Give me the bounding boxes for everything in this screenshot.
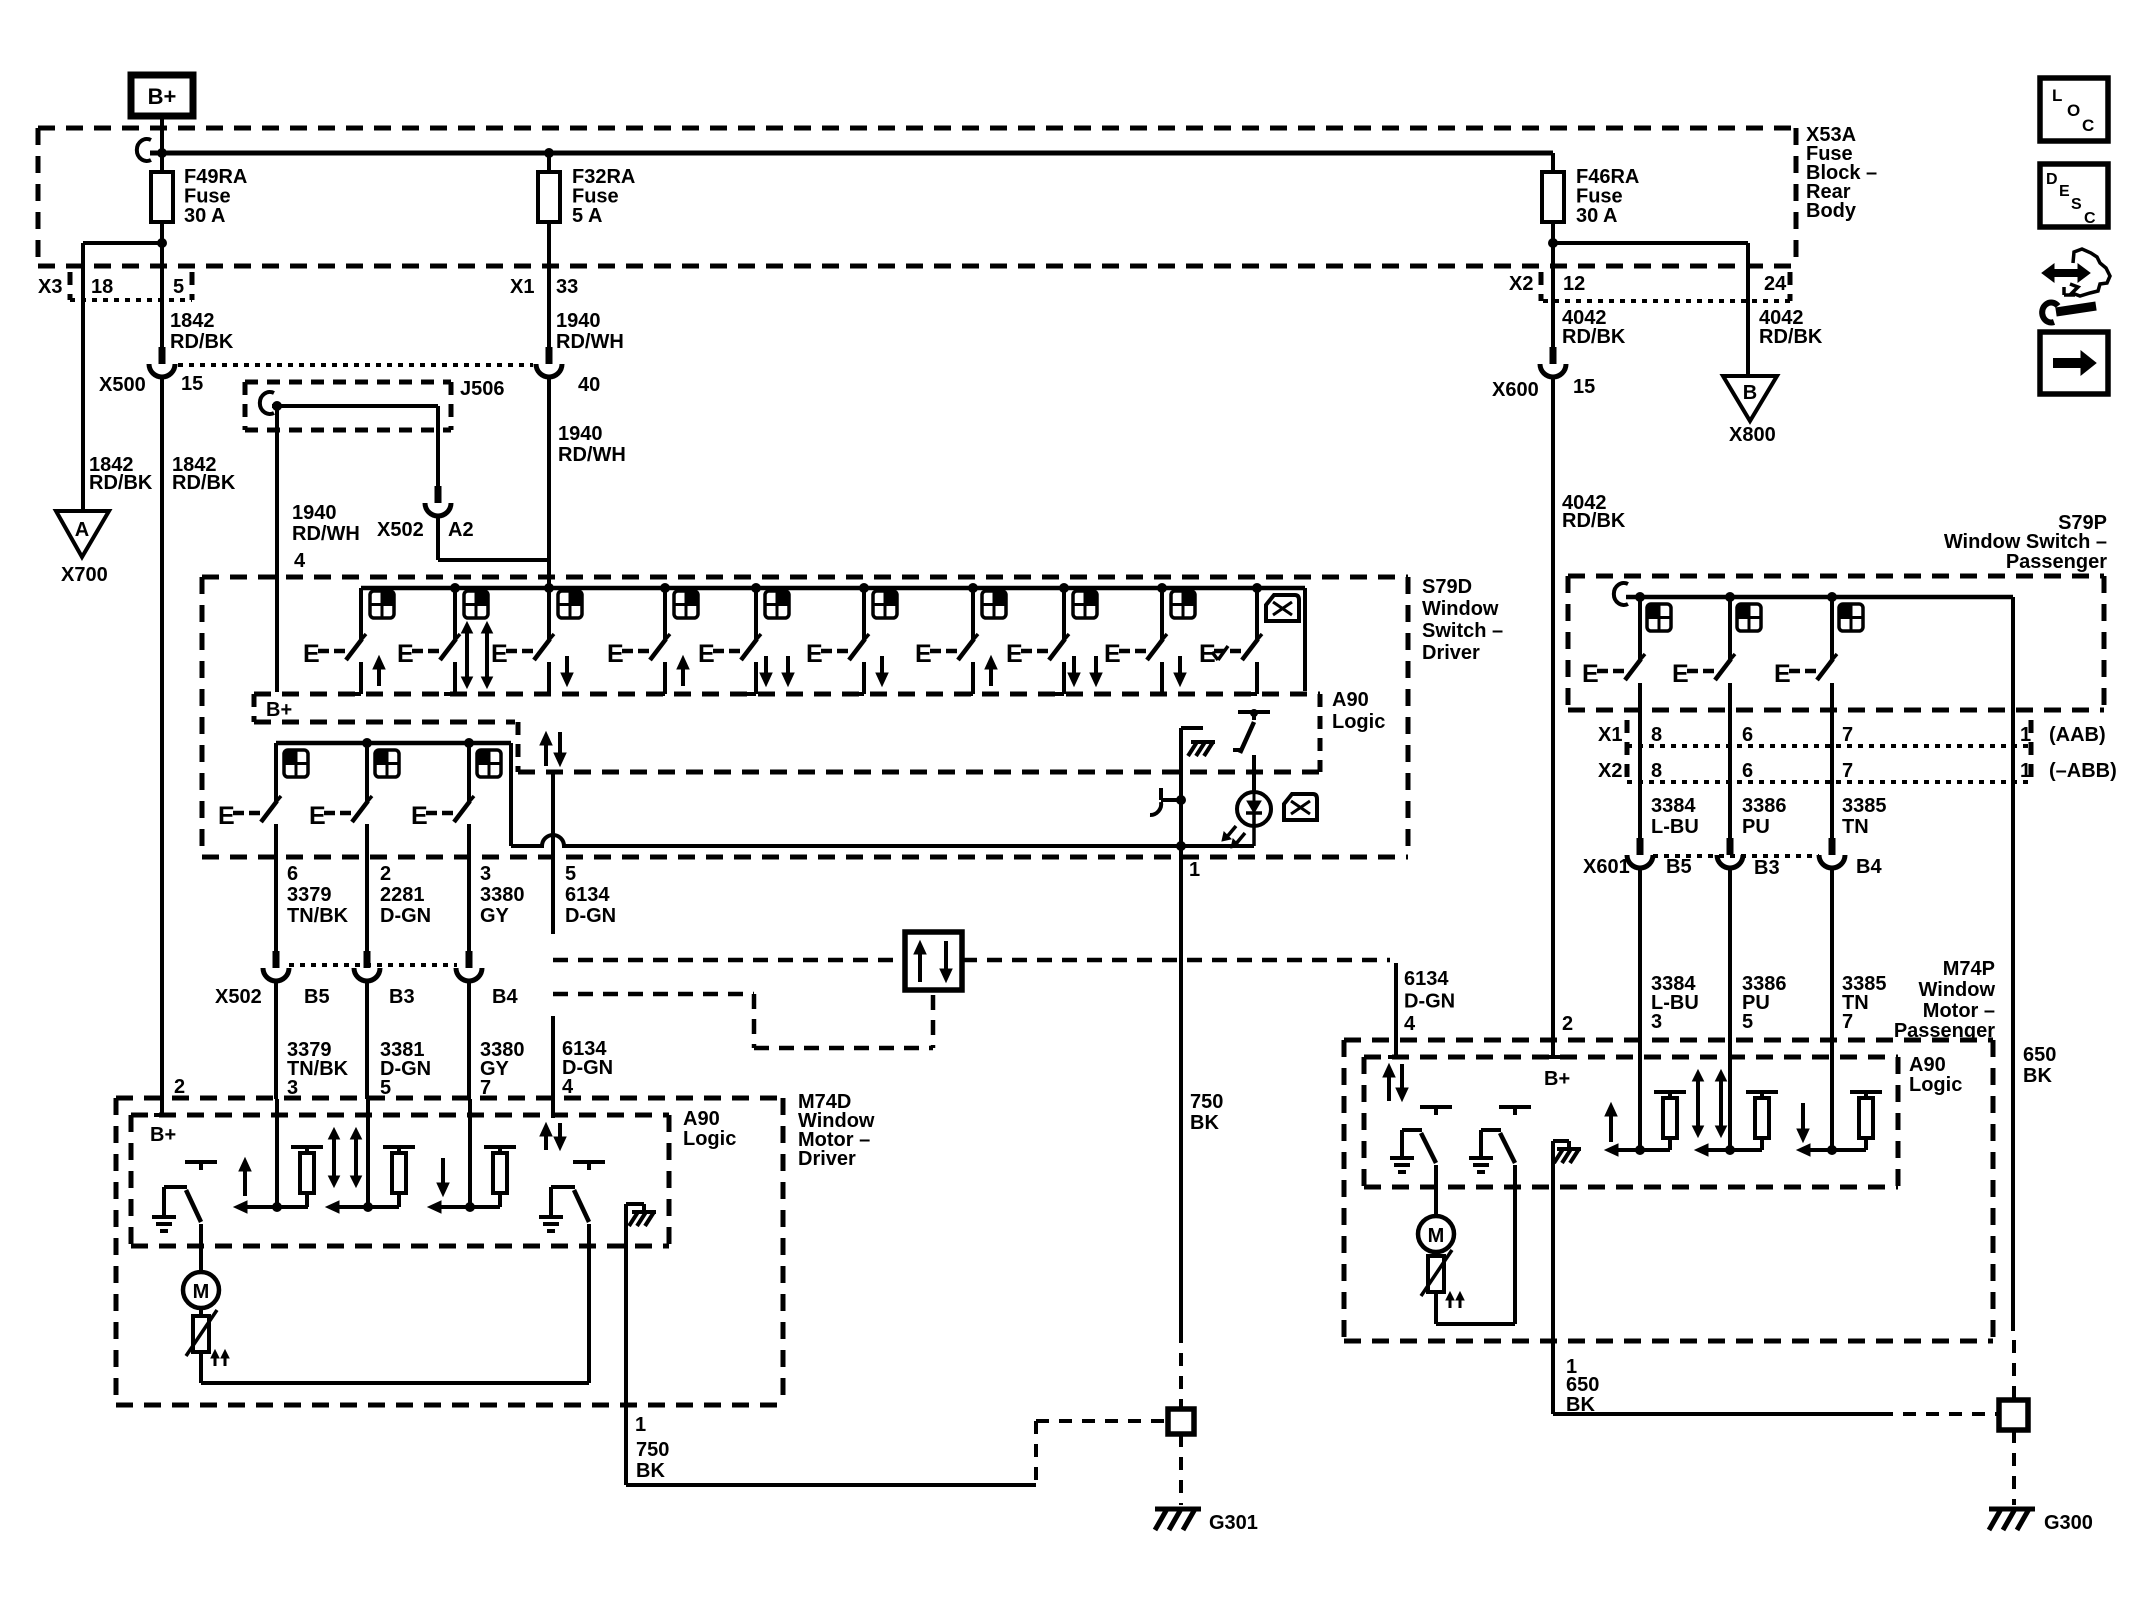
- svg-text:1: 1: [2020, 724, 2031, 746]
- svg-text:1: 1: [1189, 859, 1200, 881]
- svg-text:Switch –: Switch –: [1422, 620, 1503, 642]
- svg-text:24: 24: [1764, 273, 1787, 295]
- svg-text:E: E: [1104, 640, 1121, 668]
- svg-text:Logic: Logic: [683, 1128, 736, 1150]
- svg-text:X502: X502: [215, 986, 262, 1008]
- svg-text:M: M: [193, 1281, 210, 1303]
- svg-text:TN/BK: TN/BK: [287, 905, 349, 927]
- svg-text:Logic: Logic: [1909, 1074, 1962, 1096]
- svg-text:G300: G300: [2044, 1512, 2093, 1534]
- svg-text:X3: X3: [38, 276, 62, 298]
- svg-text:M74P: M74P: [1943, 958, 1995, 980]
- svg-text:650: 650: [1566, 1374, 1599, 1396]
- svg-text:X502: X502: [377, 519, 424, 541]
- svg-text:X500: X500: [99, 374, 146, 396]
- svg-text:7: 7: [1842, 724, 1853, 746]
- svg-text:E: E: [1006, 640, 1023, 668]
- svg-text:(–ABB): (–ABB): [2049, 760, 2117, 782]
- svg-text:E: E: [303, 640, 320, 668]
- svg-text:PU: PU: [1742, 816, 1770, 838]
- svg-text:(AAB): (AAB): [2049, 724, 2106, 746]
- svg-text:2281: 2281: [380, 884, 425, 906]
- svg-text:6: 6: [1742, 760, 1753, 782]
- svg-text:4: 4: [1404, 1013, 1416, 1035]
- svg-text:Body: Body: [1806, 200, 1857, 222]
- svg-text:6: 6: [287, 863, 298, 885]
- svg-text:650: 650: [2023, 1044, 2056, 1066]
- svg-text:3384: 3384: [1651, 795, 1696, 817]
- svg-text:5: 5: [565, 863, 576, 885]
- svg-text:E: E: [1582, 660, 1599, 688]
- svg-text:RD/BK: RD/BK: [170, 331, 234, 353]
- svg-text:1940: 1940: [558, 423, 603, 445]
- svg-text:D-GN: D-GN: [565, 905, 616, 927]
- svg-text:X600: X600: [1492, 379, 1539, 401]
- svg-text:Window: Window: [1919, 979, 1996, 1001]
- svg-text:Driver: Driver: [1422, 642, 1480, 664]
- svg-text:6134: 6134: [565, 884, 610, 906]
- svg-text:A90: A90: [1909, 1054, 1946, 1076]
- svg-text:B+: B+: [1544, 1068, 1570, 1090]
- svg-text:40: 40: [578, 374, 600, 396]
- svg-text:O: O: [2067, 101, 2080, 120]
- svg-text:GY: GY: [480, 905, 510, 927]
- svg-text:E: E: [411, 802, 428, 830]
- svg-text:RD/BK: RD/BK: [172, 472, 236, 494]
- svg-text:15: 15: [1573, 376, 1595, 398]
- svg-text:3386: 3386: [1742, 795, 1787, 817]
- svg-text:B+: B+: [148, 84, 177, 109]
- svg-text:30 A: 30 A: [1576, 205, 1618, 227]
- svg-text:3385: 3385: [1842, 795, 1887, 817]
- svg-text:6134: 6134: [1404, 968, 1449, 990]
- svg-text:RD/BK: RD/BK: [1759, 326, 1823, 348]
- svg-text:Window: Window: [1422, 598, 1499, 620]
- svg-text:X601: X601: [1583, 856, 1630, 878]
- svg-text:3379: 3379: [287, 884, 332, 906]
- svg-text:1940: 1940: [292, 502, 337, 524]
- svg-text:C: C: [2084, 210, 2096, 227]
- svg-text:RD/BK: RD/BK: [89, 472, 153, 494]
- svg-text:X800: X800: [1729, 424, 1776, 446]
- svg-text:E: E: [698, 640, 715, 668]
- svg-text:M: M: [1428, 1225, 1445, 1247]
- svg-text:7: 7: [1842, 760, 1853, 782]
- svg-text:1940: 1940: [556, 310, 601, 332]
- svg-text:E: E: [806, 640, 823, 668]
- svg-text:L: L: [2052, 86, 2062, 105]
- svg-text:D: D: [2046, 171, 2058, 188]
- svg-text:4: 4: [294, 550, 306, 572]
- svg-text:X2: X2: [1598, 760, 1622, 782]
- svg-text:BK: BK: [636, 1460, 665, 1482]
- svg-text:750: 750: [636, 1439, 669, 1461]
- svg-text:TN: TN: [1842, 816, 1869, 838]
- svg-text:A: A: [75, 519, 89, 541]
- svg-text:J506: J506: [460, 378, 505, 400]
- svg-text:RD/WH: RD/WH: [556, 331, 624, 353]
- svg-text:5 A: 5 A: [572, 205, 602, 227]
- svg-text:3: 3: [480, 863, 491, 885]
- svg-text:8: 8: [1651, 760, 1662, 782]
- svg-text:E: E: [915, 640, 932, 668]
- svg-text:B: B: [1743, 382, 1757, 404]
- svg-text:B+: B+: [150, 1124, 176, 1146]
- svg-text:S79D: S79D: [1422, 576, 1472, 598]
- svg-text:Passenger: Passenger: [2006, 551, 2107, 573]
- svg-text:12: 12: [1563, 273, 1585, 295]
- svg-text:E: E: [218, 802, 235, 830]
- svg-text:L-BU: L-BU: [1651, 816, 1699, 838]
- svg-text:B5: B5: [304, 986, 330, 1008]
- svg-text:X700: X700: [61, 564, 108, 586]
- svg-text:B5: B5: [1666, 856, 1692, 878]
- svg-text:1: 1: [2020, 760, 2031, 782]
- svg-text:7: 7: [1842, 1011, 1853, 1033]
- svg-text:BK: BK: [2023, 1065, 2052, 1087]
- svg-text:4: 4: [562, 1076, 574, 1098]
- svg-text:D-GN: D-GN: [380, 905, 431, 927]
- svg-text:Logic: Logic: [1332, 711, 1385, 733]
- svg-text:B3: B3: [1754, 857, 1780, 879]
- svg-text:E: E: [1672, 660, 1689, 688]
- svg-text:S: S: [2071, 196, 2082, 213]
- svg-text:E: E: [397, 640, 414, 668]
- svg-text:5: 5: [1742, 1011, 1753, 1033]
- svg-text:2: 2: [380, 863, 391, 885]
- svg-text:Window Switch –: Window Switch –: [1944, 531, 2107, 553]
- svg-text:8: 8: [1651, 724, 1662, 746]
- svg-text:Motor –: Motor –: [1923, 1000, 1995, 1022]
- svg-text:E: E: [2059, 183, 2070, 200]
- svg-text:5: 5: [173, 276, 184, 298]
- svg-text:RD/WH: RD/WH: [558, 444, 626, 466]
- svg-text:Driver: Driver: [798, 1148, 856, 1170]
- svg-text:30 A: 30 A: [184, 205, 226, 227]
- svg-text:A90: A90: [683, 1108, 720, 1130]
- svg-text:E: E: [309, 802, 326, 830]
- svg-text:B3: B3: [389, 986, 415, 1008]
- svg-text:B4: B4: [492, 986, 518, 1008]
- svg-text:C: C: [2082, 116, 2094, 135]
- svg-text:RD/WH: RD/WH: [292, 523, 360, 545]
- svg-text:X2: X2: [1509, 273, 1533, 295]
- svg-text:D-GN: D-GN: [1404, 991, 1455, 1013]
- svg-text:E: E: [491, 640, 508, 668]
- svg-text:RD/BK: RD/BK: [1562, 510, 1626, 532]
- svg-text:X1: X1: [1598, 724, 1622, 746]
- svg-text:E: E: [607, 640, 624, 668]
- svg-text:6: 6: [1742, 724, 1753, 746]
- svg-text:3380: 3380: [480, 884, 525, 906]
- svg-text:B+: B+: [266, 699, 292, 721]
- svg-text:RD/BK: RD/BK: [1562, 326, 1626, 348]
- svg-text:33: 33: [556, 276, 578, 298]
- svg-text:A2: A2: [448, 519, 474, 541]
- svg-text:750: 750: [1190, 1091, 1223, 1113]
- svg-text:BK: BK: [1190, 1112, 1219, 1134]
- svg-text:1: 1: [635, 1414, 646, 1436]
- svg-text:G301: G301: [1209, 1512, 1258, 1534]
- svg-text:E: E: [1774, 660, 1791, 688]
- svg-text:2: 2: [174, 1076, 185, 1098]
- svg-text:1842: 1842: [170, 310, 215, 332]
- svg-text:B4: B4: [1856, 856, 1882, 878]
- svg-text:X1: X1: [510, 276, 534, 298]
- svg-text:15: 15: [181, 373, 203, 395]
- svg-text:18: 18: [91, 276, 113, 298]
- svg-text:2: 2: [1562, 1013, 1573, 1035]
- svg-text:A90: A90: [1332, 689, 1369, 711]
- svg-text:3: 3: [1651, 1011, 1662, 1033]
